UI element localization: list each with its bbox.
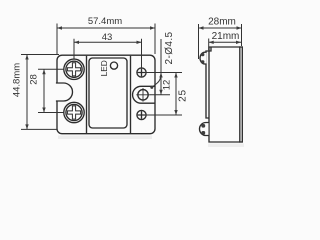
svg-text:28mm: 28mm [208, 17, 236, 28]
mounting screw bottom-left [64, 102, 84, 122]
dim 57.4mm line [57, 24, 155, 55]
dim 12 line [159, 73, 162, 95]
side view base plate [240, 47, 243, 142]
svg-text:44.8mm: 44.8mm [12, 63, 23, 97]
dim 28mm line [199, 24, 242, 59]
mounting screw top-left [64, 59, 84, 79]
dim 43 line [74, 39, 142, 68]
groove line left of label [86, 56, 88, 133]
terminal slot around middle screw [133, 86, 155, 103]
svg-text:21mm: 21mm [212, 31, 240, 42]
side view cover outline [209, 47, 240, 142]
svg-text:2-Ø4.5: 2-Ø4.5 [164, 31, 175, 64]
dimensions side view [199, 24, 242, 59]
terminal screw middle with center mark [136, 88, 150, 102]
mounting slot notch on left edge [56, 83, 73, 101]
svg-text:57.4mm: 57.4mm [88, 16, 122, 27]
svg-text:25: 25 [178, 89, 189, 102]
dim 21mm line [209, 39, 241, 51]
leader line for 2-Ø4.5 [150, 39, 161, 89]
groove line right of label [130, 56, 132, 133]
soft shadow under side body [208, 144, 244, 148]
dim 28 line [38, 69, 64, 112]
svg-text:LED: LED [99, 60, 109, 76]
side terminal screw bottom [200, 123, 209, 136]
screw shading marks [201, 53, 205, 135]
LED indicator circle [110, 62, 117, 69]
front view body outline [57, 55, 155, 134]
svg-text:28: 28 [29, 74, 40, 85]
dim 25 line [174, 73, 177, 116]
side terminal screw top [200, 52, 207, 64]
dim 44.8mm line [21, 55, 59, 130]
soft shadow under front body [58, 136, 152, 140]
extension lines right terminal screws [147, 72, 183, 74]
terminal screw top [137, 68, 146, 77]
svg-text:12: 12 [162, 80, 173, 91]
svg-text:43: 43 [102, 32, 113, 43]
terminal screw bottom [137, 110, 146, 119]
label plate [89, 58, 127, 128]
